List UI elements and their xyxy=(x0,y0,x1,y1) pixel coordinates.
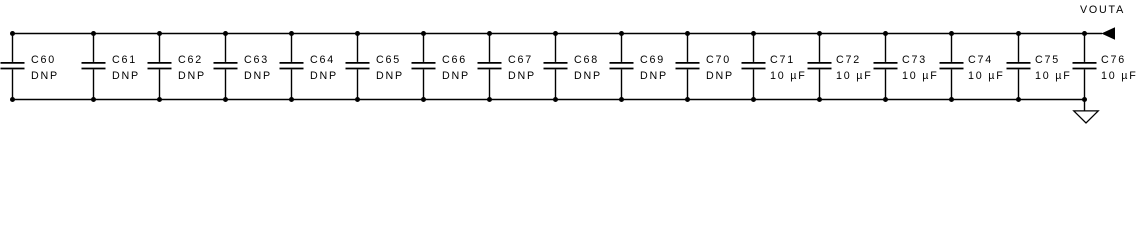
svg-text:VOUTA: VOUTA xyxy=(1080,4,1125,16)
svg-text:C60: C60 xyxy=(31,54,56,66)
svg-text:DNP: DNP xyxy=(31,70,59,82)
svg-text:C72: C72 xyxy=(836,54,861,66)
svg-text:DNP: DNP xyxy=(706,70,734,82)
svg-text:C75: C75 xyxy=(1035,54,1060,66)
svg-text:10 µF: 10 µF xyxy=(1035,70,1072,82)
svg-text:10 µF: 10 µF xyxy=(1101,70,1136,82)
svg-text:C70: C70 xyxy=(706,54,731,66)
svg-text:DNP: DNP xyxy=(112,70,140,82)
svg-text:DNP: DNP xyxy=(640,70,668,82)
svg-text:C61: C61 xyxy=(112,54,137,66)
svg-text:C65: C65 xyxy=(376,54,401,66)
svg-text:C67: C67 xyxy=(508,54,533,66)
svg-text:C66: C66 xyxy=(442,54,467,66)
svg-text:10 µF: 10 µF xyxy=(836,70,873,82)
svg-text:DNP: DNP xyxy=(178,70,206,82)
svg-text:C73: C73 xyxy=(902,54,927,66)
svg-text:10 µF: 10 µF xyxy=(902,70,939,82)
svg-text:10 µF: 10 µF xyxy=(770,70,807,82)
svg-text:DNP: DNP xyxy=(442,70,470,82)
svg-text:DNP: DNP xyxy=(574,70,602,82)
svg-text:C74: C74 xyxy=(968,54,993,66)
svg-text:DNP: DNP xyxy=(310,70,338,82)
svg-text:DNP: DNP xyxy=(376,70,404,82)
svg-text:C68: C68 xyxy=(574,54,599,66)
svg-text:C76: C76 xyxy=(1101,54,1126,66)
svg-text:C69: C69 xyxy=(640,54,665,66)
svg-text:C63: C63 xyxy=(244,54,269,66)
svg-text:DNP: DNP xyxy=(244,70,272,82)
svg-text:C62: C62 xyxy=(178,54,203,66)
svg-text:C64: C64 xyxy=(310,54,335,66)
svg-text:C71: C71 xyxy=(770,54,795,66)
svg-text:DNP: DNP xyxy=(508,70,536,82)
svg-text:10 µF: 10 µF xyxy=(968,70,1005,82)
